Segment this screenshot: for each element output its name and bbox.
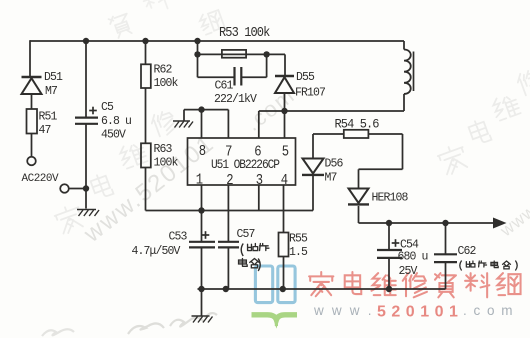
svg-text:C57: C57 [237,228,255,241]
svg-text:4: 4 [281,173,288,189]
svg-text:8: 8 [199,144,206,160]
svg-text:25V: 25V [399,265,418,278]
svg-text:R63: R63 [154,143,173,156]
svg-text:5: 5 [282,145,289,161]
svg-text:C61: C61 [215,80,234,93]
svg-text:680 u: 680 u [398,251,428,264]
svg-text:R54 5.6: R54 5.6 [335,117,379,132]
svg-text:D56: D56 [325,158,344,171]
svg-text:4.7μ/50V: 4.7μ/50V [132,245,181,258]
svg-text:100k: 100k [154,157,179,170]
svg-text:M7: M7 [325,172,337,185]
svg-text:AC220V: AC220V [22,173,60,185]
svg-text:D55: D55 [296,71,315,84]
svg-text:100k: 100k [154,77,179,90]
svg-text:w w w .: w w w . [313,303,374,318]
svg-text:1.5: 1.5 [289,246,308,259]
svg-text:D51: D51 [44,71,63,84]
svg-text:R62: R62 [154,64,173,77]
svg-text:FR107: FR107 [295,87,325,100]
svg-text:2: 2 [226,173,233,189]
svg-text:450V: 450V [101,129,126,142]
svg-text:R53 100k: R53 100k [219,24,270,40]
svg-text:M7: M7 [45,85,57,98]
svg-text:R51: R51 [39,111,58,124]
svg-text:6.8 u: 6.8 u [101,115,131,128]
svg-text:HER108: HER108 [372,192,409,205]
svg-text:R55: R55 [289,233,308,246]
svg-text:U51 OB2226CP: U51 OB2226CP [211,157,280,172]
svg-text:222/1kV: 222/1kV [214,93,257,106]
svg-text:. c o m: . c o m [463,303,514,318]
svg-text:47: 47 [39,124,51,137]
svg-text:C53: C53 [169,231,188,244]
svg-text:C62: C62 [458,245,477,258]
svg-text:520101: 520101 [377,304,463,321]
svg-text:C5: C5 [101,101,114,114]
